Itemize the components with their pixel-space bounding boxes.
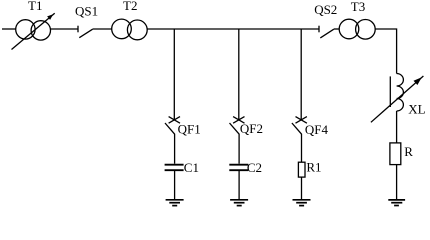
wire: QF1 to C1 xyxy=(174,134,176,164)
svg-text:T3: T3 xyxy=(351,0,365,14)
resistor R1 xyxy=(298,162,305,177)
wire: R to ground xyxy=(396,165,398,200)
transformer T2 xyxy=(112,19,148,40)
transformer T1 xyxy=(12,13,55,49)
ground (branch 1) xyxy=(166,200,184,206)
wire: XL to R xyxy=(396,111,398,143)
wire: QF2 to C2 xyxy=(238,134,240,164)
wire: QF4 to R1 xyxy=(301,134,303,162)
resistor R xyxy=(390,143,401,165)
wire: incoming lead to T1 xyxy=(2,28,16,30)
svg-text:C1: C1 xyxy=(184,160,199,175)
svg-text:R1: R1 xyxy=(306,160,321,175)
wire: T1 to QS1 xyxy=(50,28,78,30)
svg-text:R: R xyxy=(404,144,413,159)
svg-text:QS1: QS1 xyxy=(75,4,98,19)
inductor XL xyxy=(371,74,424,123)
wire: bus from T2 to QS2 xyxy=(147,28,319,30)
disconnect switch QS2 xyxy=(319,26,334,38)
svg-text:T1: T1 xyxy=(28,0,42,13)
ground (branch 3) xyxy=(293,200,311,206)
breaker QF2 xyxy=(230,29,245,134)
disconnect switch QS1 xyxy=(78,26,93,38)
wire: QS1 to T2 xyxy=(93,28,112,30)
wire: C2 to ground xyxy=(238,170,240,199)
svg-text:QF2: QF2 xyxy=(240,121,263,136)
ground (branch 2) xyxy=(230,200,248,206)
ground (right branch) xyxy=(388,200,405,206)
svg-text:T2: T2 xyxy=(123,0,137,13)
breaker QF1 xyxy=(165,29,180,134)
svg-text:XL: XL xyxy=(408,102,425,117)
svg-text:QF4: QF4 xyxy=(305,122,329,137)
wire: C1 to ground xyxy=(174,170,176,199)
wire: QS2 to T3 xyxy=(334,28,340,30)
svg-text:C2: C2 xyxy=(247,160,262,175)
breaker QF4 xyxy=(292,29,307,134)
wire: T3 to right corner and down xyxy=(375,29,396,74)
capacitor C1 xyxy=(165,165,184,171)
svg-text:QS2: QS2 xyxy=(314,2,337,17)
transformer T3 xyxy=(339,19,375,39)
svg-text:QF1: QF1 xyxy=(178,122,201,137)
wire: R1 to ground xyxy=(301,177,303,199)
capacitor C2 xyxy=(229,165,248,171)
